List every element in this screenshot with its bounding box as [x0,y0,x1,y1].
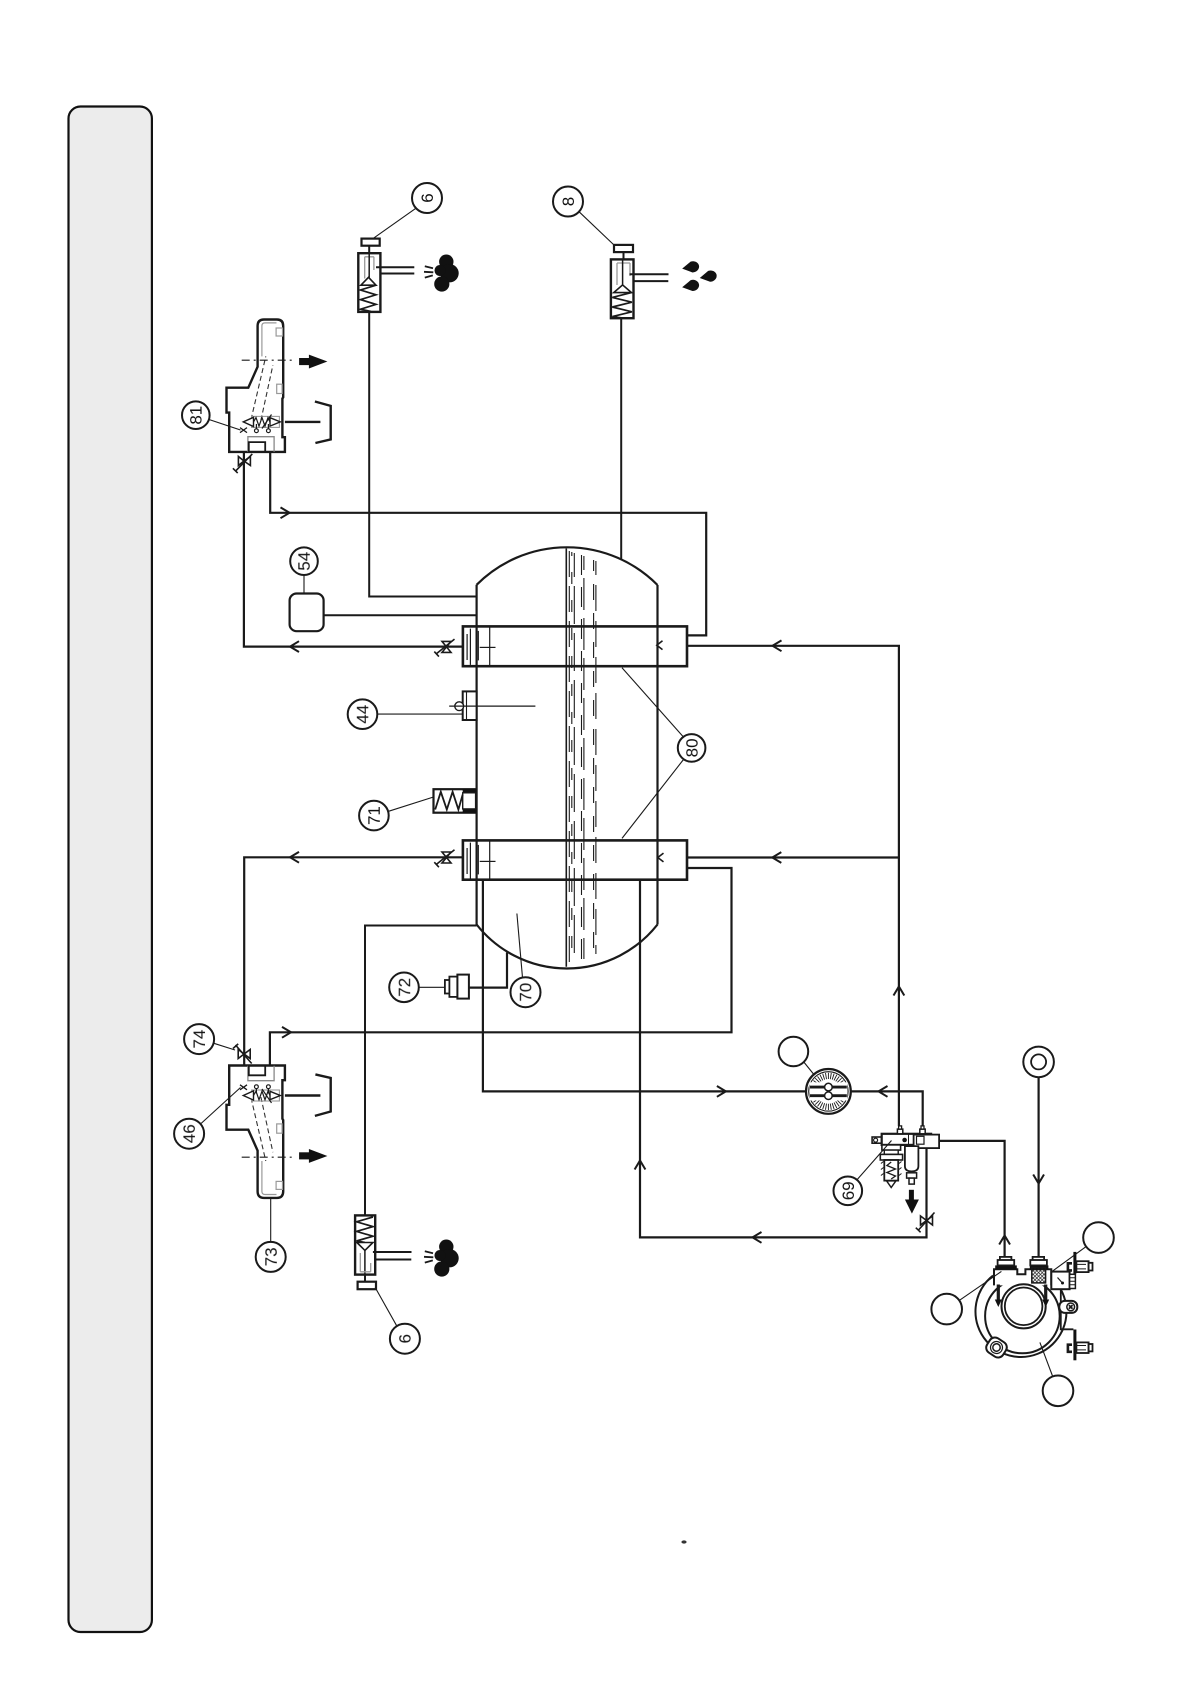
leader 54 [303,575,305,594]
band 80 upper internal arrow [657,641,663,650]
valve 81 direction arrow [299,355,327,369]
callout circle 6 top [412,183,442,213]
leader 44 [378,713,463,715]
safety valve 6 bottom [355,1215,411,1289]
callout circle right of compressor [1083,1222,1114,1253]
throttle cock under governor [916,1213,935,1233]
leader 69 [857,1141,892,1180]
wire valve 8 to tank dome [620,319,622,560]
pressure gauge [806,1069,851,1114]
drain cock on upper band wire [434,639,454,657]
valve 46 detail notches [276,1181,282,1189]
valve 46 pipe bracket [315,1074,331,1116]
callout circle 69 [834,1177,863,1206]
valve 46 inner top details [248,1066,274,1081]
leader 74 [214,1043,236,1050]
callout circle 44 [348,699,378,729]
gauge face band [810,1082,848,1100]
wire ring to compressor right port [1037,1077,1039,1257]
bottom left mounting ear [984,1335,1009,1360]
callout circle 73 [256,1242,286,1272]
wire valve 6 bottom to tank [365,926,477,1216]
low pressure switch 54 [290,594,324,632]
tank level dashed lines [569,551,596,964]
exhaust cloud of valve 6 bottom [434,1240,459,1277]
wire valve 6 top to tank [369,312,476,597]
svg-text:8: 8 [559,197,578,206]
sidebar gray bar [69,107,152,1633]
leader 80 to lower band [622,760,684,839]
arrow on wire vertical [894,987,905,996]
head black strips [995,1265,1017,1269]
svg-text:6: 6 [396,1334,415,1343]
arrow on wire [290,641,299,652]
valve 81 inner gray contour [262,323,277,357]
arrow on wire [717,1086,726,1097]
drain valve 8 [611,245,669,318]
svg-text:46: 46 [180,1124,199,1143]
arrow on wire [753,1232,762,1243]
exhaust cloud of valve 6 top [434,255,459,292]
wire tank to gauge and governor right port [483,880,923,1126]
callout circle 6 bottom [390,1324,420,1354]
right mounting ear [1059,1301,1077,1313]
callout circle 72 [389,973,419,1003]
svg-text:44: 44 [354,705,373,724]
hand brake valve 81 body [227,320,285,452]
arrow on wire [290,852,299,863]
hand brake valve 46 body [227,1066,285,1198]
arrow on wire [999,1236,1010,1245]
arrow on wire vertical [635,1161,646,1170]
leader 73 [270,1199,272,1242]
shut-off cock 74 [233,1044,252,1064]
fitting 44 on tank wall [463,691,477,720]
compressor bore circles [1002,1284,1046,1328]
mounting band 80 lower [463,840,687,879]
svg-text:6: 6 [418,193,437,202]
valve 46 axis dash-dot [242,1156,295,1158]
wire drain plug to tank [469,953,507,988]
arrow on wire [879,1086,888,1097]
wire band lower left to cock 74 and valve 46 [244,857,463,1066]
wire valve 46 right port to band lower right [270,868,732,1066]
leader 8 [579,212,614,245]
compressor body circle [985,1279,1060,1354]
valve 46 direction arrow [299,1149,327,1163]
left port nut [1000,1257,1012,1260]
upper right connector [1073,1252,1076,1274]
svg-text:81: 81 [187,406,206,425]
safety valve 6 top [358,239,414,312]
valve 46 lever dashed [251,1098,266,1161]
callout circle left of compressor [931,1294,962,1325]
link to lower connector [1061,1289,1074,1329]
svg-text:74: 74 [190,1030,209,1049]
intake arrows inside head [997,1285,1000,1301]
unloader valve box [1051,1272,1069,1290]
svg-text:72: 72 [395,978,414,997]
svg-text:80: 80 [683,738,702,757]
callout circle 8 [553,187,583,217]
leader 80 to upper band [622,668,683,737]
gauge leader [804,1062,814,1075]
svg-text:71: 71 [365,806,384,825]
valve 81 pipe bracket [315,402,331,444]
wire band lower right joining governor line [687,856,899,858]
leader 72 [419,986,445,988]
valve 81 inner bottom details [248,437,274,452]
wire valve 81 right port to band upper right [270,452,706,635]
valve 46 inner gray contour [262,1161,277,1195]
arrow on wire [281,507,290,518]
arrow on wire [773,640,782,651]
leader 70 [517,914,523,978]
governor 69 [872,1126,939,1188]
valve 81 lever dashed [251,356,266,419]
leader 6 bottom [375,1288,397,1327]
leader 6 top [373,208,416,238]
gauge needles and hubs [810,1087,847,1096]
valve 46 outlet port line [285,1094,321,1096]
governor exhaust arrow [905,1190,919,1214]
compressor clamp band arc [975,1276,1066,1357]
mounting band 80 upper [463,626,687,666]
test cock below valve 81 [233,454,252,473]
callout circle 46 [174,1119,204,1149]
compressor head [994,1269,1051,1285]
callout circle 81 [182,401,210,429]
callout circle 71 [359,801,389,831]
valve 81 outlet port line [285,421,321,423]
drain plug 72 [445,980,450,994]
band 80 lower internal arrow [658,853,664,862]
droplets of drain valve 8 [681,260,717,293]
svg-text:70: 70 [517,983,536,1002]
arrow on wire [282,1027,291,1038]
spring fitting 71 on tank wall [434,789,477,813]
callout circle 70 [511,977,541,1007]
tank seam line [565,549,567,967]
wire 54 to tank [324,614,477,616]
valve 81 axis dash-dot [242,359,295,361]
right port nut [1033,1257,1045,1260]
drain cock on lower band wire [434,850,454,868]
gauge tick ring [810,1073,847,1110]
valve 81 internal check spring [240,415,280,433]
svg-text:69: 69 [839,1181,858,1200]
gauge callout circle [779,1037,809,1067]
arrow on wire [1033,1175,1044,1184]
svg-text:54: 54 [295,552,314,571]
wire valve 81 left port to band upper left [244,452,463,647]
callout circle 74 [184,1024,214,1054]
ring callout above compressor [1023,1047,1054,1078]
leader 81 [209,420,241,431]
leader 46 [201,1088,241,1125]
wire governor return to band lower [640,880,927,1238]
lower right connector [1073,1330,1076,1361]
callout circle 54 [290,547,318,575]
reservoir tank 70 body [477,547,658,968]
ridged adapter [1070,1274,1076,1288]
valve 81 detail notches [276,328,282,336]
wire governor to compressor [940,1141,1005,1257]
callout circle 80 [678,734,706,762]
stray dot [681,1540,686,1543]
wire band upper right to governor [687,646,899,1126]
desiccant cartridge hatched [1032,1268,1046,1283]
svg-text:73: 73 [262,1247,281,1266]
callout circle below compressor [1043,1376,1074,1407]
leader 71 [389,797,434,811]
arrow on wire [772,852,781,863]
valve 46 internal check spring [240,1085,280,1103]
